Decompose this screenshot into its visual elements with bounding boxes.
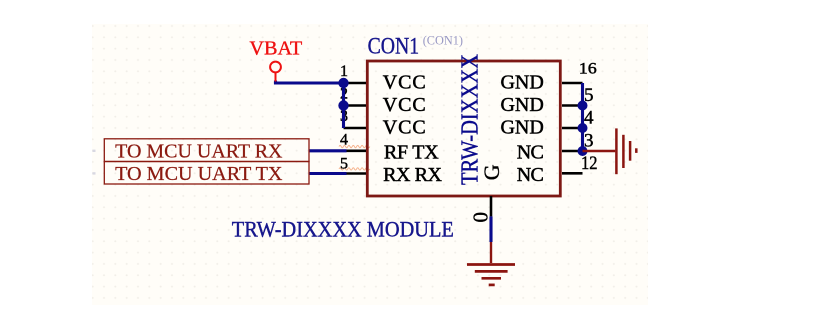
- svg-text:0: 0: [469, 212, 493, 223]
- svg-text:12: 12: [581, 153, 598, 174]
- svg-text:5: 5: [340, 155, 348, 172]
- svg-text:VBAT: VBAT: [249, 38, 302, 60]
- svg-text:TRW-DIXXXX MODULE: TRW-DIXXXX MODULE: [232, 216, 454, 241]
- svg-text:GND: GND: [501, 72, 544, 94]
- svg-text:VCC: VCC: [383, 117, 426, 139]
- svg-text:RX RX: RX RX: [383, 164, 442, 186]
- svg-text:TO MCU UART TX: TO MCU UART TX: [115, 163, 283, 185]
- svg-text:NC: NC: [517, 141, 544, 163]
- svg-text:4: 4: [340, 132, 348, 149]
- svg-text:GND: GND: [501, 117, 544, 139]
- svg-text:VCC: VCC: [383, 72, 426, 94]
- svg-text:(CON1): (CON1): [423, 33, 463, 48]
- svg-text:TO MCU UART RX: TO MCU UART RX: [115, 140, 283, 162]
- svg-text:GND: GND: [501, 94, 544, 116]
- svg-text:CON1: CON1: [368, 33, 420, 58]
- svg-text:16: 16: [579, 61, 597, 78]
- svg-text:G: G: [479, 164, 504, 180]
- svg-text:VCC: VCC: [383, 94, 426, 116]
- svg-text:1: 1: [340, 63, 348, 80]
- svg-text:RF TX: RF TX: [384, 141, 439, 163]
- svg-text:NC: NC: [517, 164, 544, 186]
